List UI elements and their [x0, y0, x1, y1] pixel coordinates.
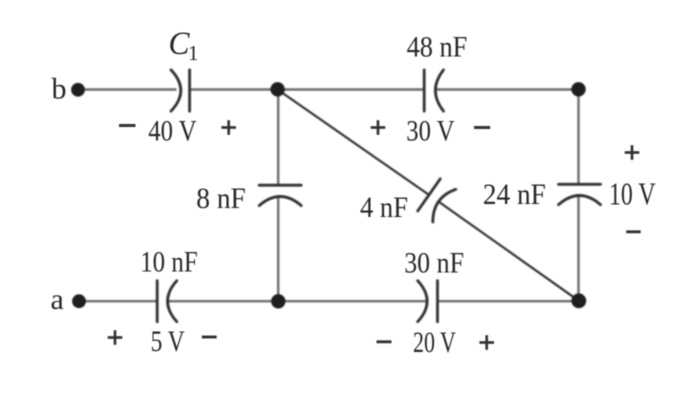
node top-middle junction — [270, 82, 284, 96]
svg-text:4 nF: 4 nF — [360, 191, 408, 224]
wire: C1 to 48nF plate — [191, 88, 424, 90]
wire: diagonal lower segment — [438, 202, 578, 301]
wire: bottom row a to 10nF plate — [79, 300, 156, 302]
wire: diagonal upper segment — [278, 90, 430, 195]
capacitor 10nF — [157, 281, 177, 322]
svg-text:8 nF: 8 nF — [196, 182, 246, 215]
sign plus left of 30 V — [371, 120, 386, 135]
node top-right junction — [571, 82, 585, 96]
svg-text:48 nF: 48 nF — [407, 31, 468, 64]
svg-text:40 V: 40 V — [148, 115, 197, 148]
svg-text:5 V: 5 V — [151, 325, 185, 358]
wire: 10nF arc to 30nF arc — [168, 300, 426, 302]
wire: left vertical lower — [277, 197, 279, 301]
wire: 48nF arc to top-right node — [436, 88, 579, 90]
svg-text:b: b — [52, 73, 67, 106]
svg-text:a: a — [51, 283, 64, 316]
svg-text:20 V: 20 V — [413, 326, 456, 359]
capacitor 4nF (on diagonal) — [418, 179, 456, 222]
sign minus left of 20 V — [377, 340, 392, 343]
svg-text:30 V: 30 V — [406, 115, 455, 148]
node bottom-middle junction — [271, 294, 285, 308]
sign plus right of 20 V — [479, 335, 494, 350]
sign plus above 10 V — [625, 145, 640, 160]
sign plus right of 40 V — [221, 120, 236, 135]
sign minus right of 30 V — [474, 126, 490, 129]
wire: left vertical upper — [277, 90, 279, 185]
capacitor 8nF — [259, 185, 301, 205]
sign minus right of 5 V — [202, 336, 217, 339]
wire: right vertical lower — [577, 196, 579, 301]
svg-text:10 nF: 10 nF — [140, 246, 198, 279]
capacitor 24nF — [559, 184, 601, 204]
wire: 30nF plate to bottom-right node — [439, 300, 579, 302]
node b terminal dot — [71, 83, 85, 97]
sign plus left of 5 V — [108, 330, 123, 345]
node a terminal dot — [72, 294, 86, 308]
sign minus left of 40 V — [119, 124, 136, 127]
wire: top row b to C1 — [78, 88, 177, 90]
capacitor 30nF — [418, 281, 438, 322]
svg-text:10 V: 10 V — [609, 177, 656, 212]
wire: right vertical upper — [577, 90, 579, 184]
capacitor 48nF — [424, 70, 443, 111]
svg-text:30 nF: 30 nF — [404, 247, 464, 280]
node bottom-right junction — [571, 293, 586, 308]
capacitor C1 — [171, 70, 190, 111]
svg-text:24 nF: 24 nF — [483, 178, 546, 211]
sign minus below 10 V — [626, 230, 641, 233]
svg-text:1: 1 — [188, 41, 199, 65]
